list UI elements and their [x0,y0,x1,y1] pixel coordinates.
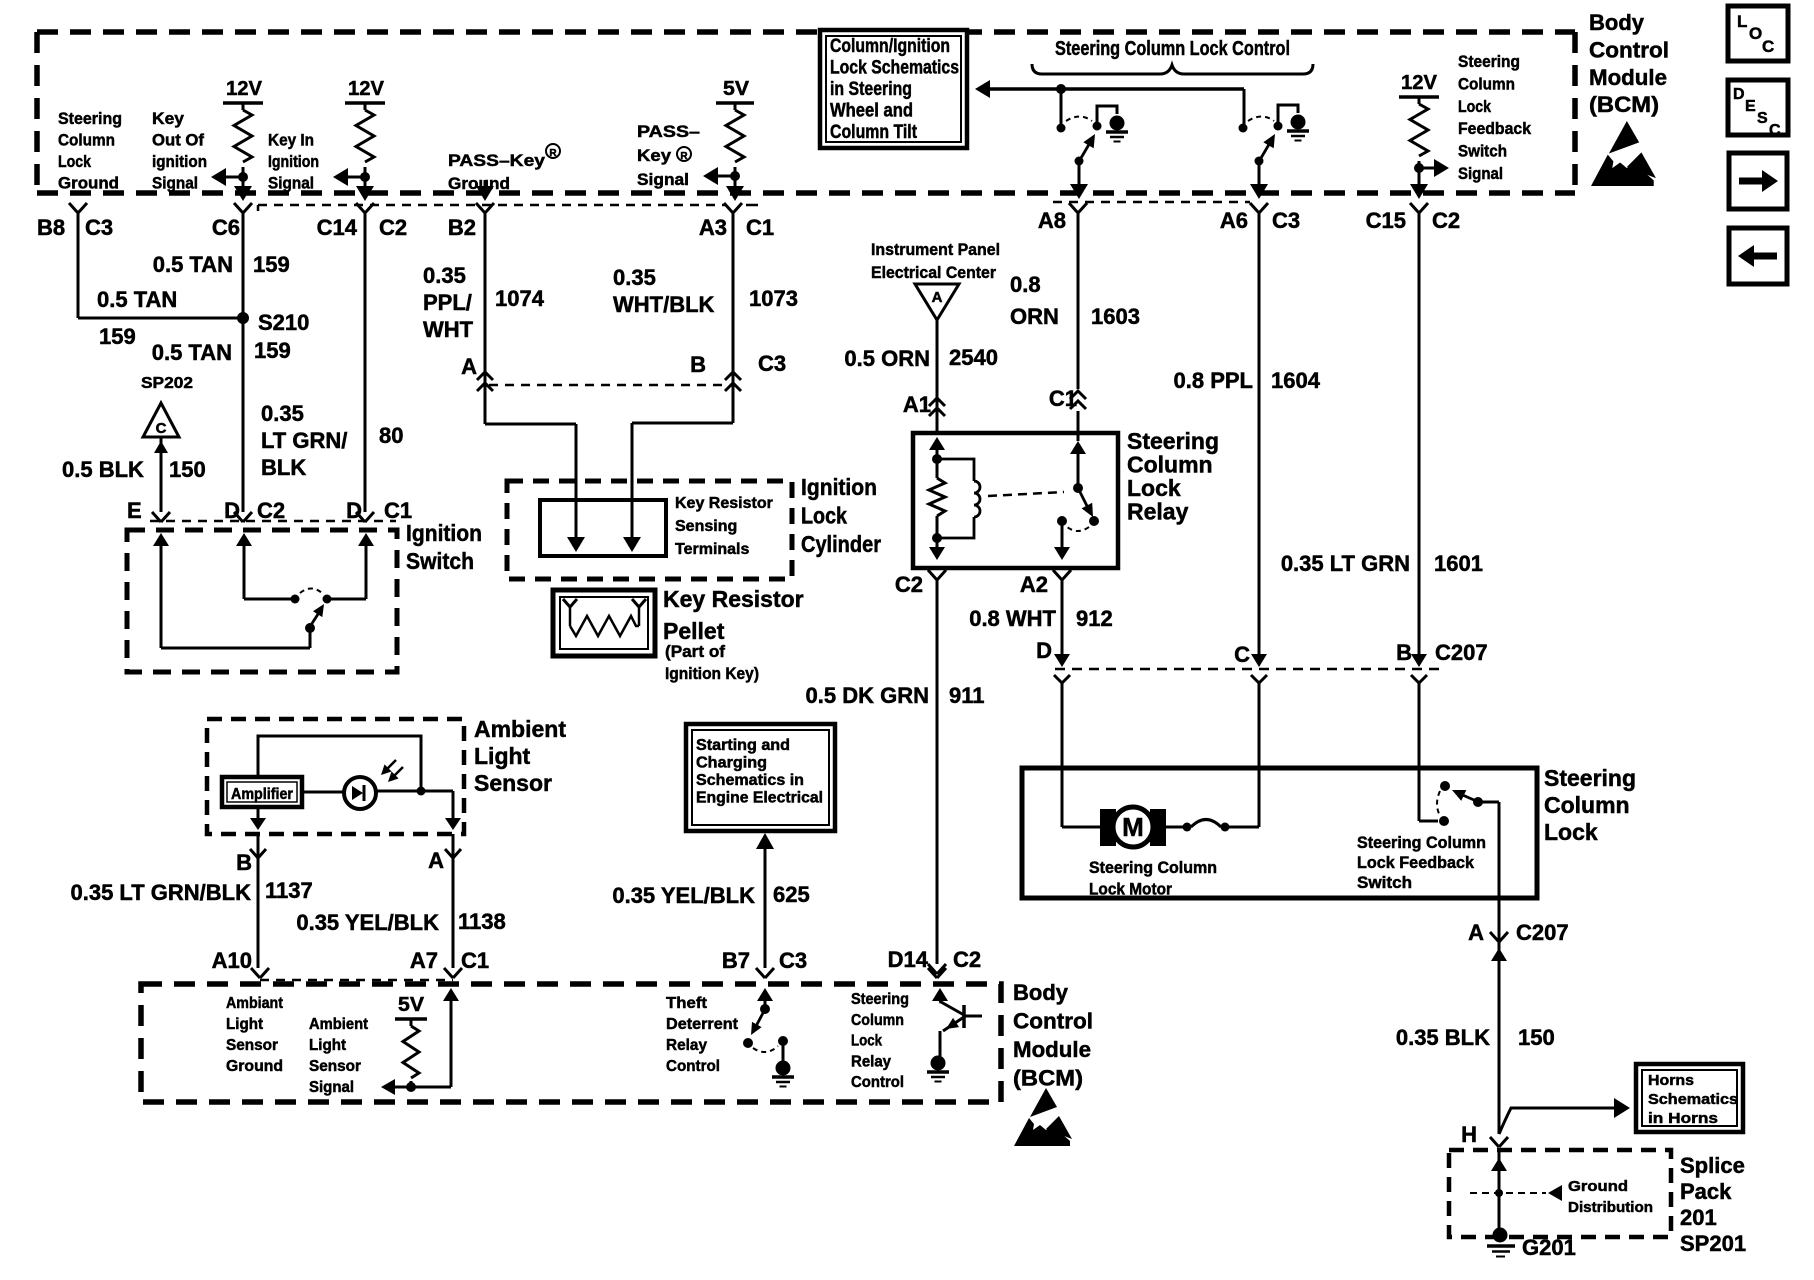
svg-text:E: E [1745,98,1756,115]
svg-text:159: 159 [253,252,290,277]
svg-text:A2: A2 [1020,572,1048,597]
svg-text:D: D [1733,86,1745,103]
svg-text:D: D [224,498,240,523]
svg-text:(BCM): (BCM) [1589,92,1659,117]
svg-text:Body: Body [1013,980,1069,1005]
svg-text:C: C [1769,122,1781,139]
svg-text:Steering: Steering [58,109,122,128]
svg-text:Ground: Ground [1568,1178,1628,1195]
svg-text:Lock Feedback: Lock Feedback [1357,854,1475,872]
svg-text:PASS–Key: PASS–Key [448,151,546,170]
svg-text:0.5 ORN: 0.5 ORN [844,346,930,371]
svg-text:Steering Column: Steering Column [1089,859,1217,877]
svg-text:Light: Light [474,743,531,769]
svg-text:Ambient: Ambient [474,716,566,742]
svg-text:0.5 TAN: 0.5 TAN [153,252,233,277]
svg-text:A8: A8 [1038,208,1066,233]
svg-text:LT GRN/: LT GRN/ [261,428,347,453]
svg-text:Column: Column [1127,452,1213,478]
svg-text:Theft: Theft [666,995,708,1012]
svg-text:B8: B8 [37,215,65,240]
svg-text:Steering Column: Steering Column [1357,834,1486,852]
svg-text:150: 150 [1518,1025,1555,1050]
svg-text:Instrument Panel: Instrument Panel [871,240,1000,259]
svg-text:C2: C2 [1432,208,1460,233]
svg-text:Steering: Steering [851,991,909,1008]
svg-text:0.35 LT GRN: 0.35 LT GRN [1281,551,1410,576]
svg-text:A6: A6 [1220,208,1248,233]
svg-text:Ignition: Ignition [268,152,319,171]
svg-text:Schematics in: Schematics in [696,772,804,789]
svg-text:2540: 2540 [949,345,998,370]
svg-text:Sensor: Sensor [226,1037,278,1054]
svg-text:1073: 1073 [749,286,798,311]
svg-text:WHT: WHT [423,317,474,342]
svg-text:1138: 1138 [458,909,506,934]
svg-text:80: 80 [379,423,403,448]
svg-text:Pack: Pack [1680,1179,1732,1204]
svg-text:Ignition: Ignition [406,520,482,546]
svg-text:Horns: Horns [1648,1072,1694,1089]
svg-text:0.35 LT GRN/BLK: 0.35 LT GRN/BLK [70,880,251,905]
svg-text:Lock: Lock [851,1033,882,1050]
svg-text:Lock Schematics: Lock Schematics [830,58,959,79]
svg-text:C15: C15 [1366,208,1406,233]
svg-text:0.35 BLK: 0.35 BLK [1396,1025,1490,1050]
svg-text:Steering: Steering [1544,765,1636,791]
svg-text:Key Resistor: Key Resistor [675,495,773,512]
svg-text:Terminals: Terminals [675,541,750,558]
svg-text:Ignition Key): Ignition Key) [665,664,759,683]
svg-text:911: 911 [949,683,985,708]
svg-text:0.35 YEL/BLK: 0.35 YEL/BLK [612,883,755,908]
svg-text:SP201: SP201 [1680,1231,1746,1256]
svg-text:C3: C3 [758,351,786,376]
svg-text:C207: C207 [1435,640,1488,665]
svg-text:0.5 TAN: 0.5 TAN [97,287,177,312]
svg-text:Column Tilt: Column Tilt [830,122,918,143]
svg-text:in Horns: in Horns [1648,1110,1718,1127]
svg-text:Lock: Lock [1458,97,1491,116]
svg-text:1137: 1137 [265,878,313,903]
svg-text:B2: B2 [448,215,476,240]
svg-text:D: D [1036,638,1052,663]
svg-text:1603: 1603 [1091,304,1140,329]
svg-text:C3: C3 [85,215,113,240]
svg-text:A7: A7 [410,948,438,973]
svg-text:C: C [156,420,167,437]
svg-text:A3: A3 [699,215,727,240]
svg-text:0.8 PPL: 0.8 PPL [1174,368,1253,393]
svg-text:C2: C2 [379,215,407,240]
svg-text:Control: Control [1589,37,1669,62]
svg-text:0.5 DK GRN: 0.5 DK GRN [806,683,929,708]
svg-text:Signal: Signal [152,174,198,193]
svg-text:BLK: BLK [261,455,306,480]
svg-text:1604: 1604 [1271,368,1321,393]
svg-text:Control: Control [851,1074,904,1091]
svg-text:Column/Ignition: Column/Ignition [830,36,950,57]
svg-text:ignition: ignition [152,152,207,171]
svg-text:C1: C1 [746,215,774,240]
svg-text:Key: Key [152,109,185,128]
svg-text:in Steering: in Steering [830,79,912,100]
svg-text:Cylinder: Cylinder [801,531,881,557]
svg-text:Column: Column [58,131,115,150]
svg-text:Relay: Relay [851,1053,891,1070]
svg-text:0.5 TAN: 0.5 TAN [152,340,232,365]
svg-text:H: H [1461,1122,1477,1147]
svg-text:B: B [690,352,706,377]
svg-text:Charging: Charging [696,755,767,772]
svg-text:B: B [1396,640,1412,665]
svg-text:C2: C2 [895,572,923,597]
svg-text:L: L [1737,12,1747,31]
svg-text:C14: C14 [317,215,358,240]
svg-text:Sensing: Sensing [675,518,737,535]
svg-text:Engine Electrical: Engine Electrical [696,790,823,807]
svg-text:Wheel and: Wheel and [830,101,913,122]
svg-text:Signal: Signal [1458,164,1503,183]
svg-text:Switch: Switch [1357,874,1412,892]
svg-text:Switch: Switch [406,548,474,574]
svg-text:WHT/BLK: WHT/BLK [613,292,715,317]
svg-text:0.5 BLK: 0.5 BLK [62,457,144,482]
svg-text:Relay: Relay [1127,499,1189,525]
svg-text:Pellet: Pellet [663,618,725,644]
svg-text:Distribution: Distribution [1568,1199,1653,1216]
svg-text:Electrical Center: Electrical Center [871,263,996,282]
svg-text:Switch: Switch [1458,142,1507,161]
svg-text:D: D [346,498,362,523]
svg-text:0.35: 0.35 [613,265,656,290]
svg-text:C1: C1 [1049,386,1077,411]
svg-text:Light: Light [309,1037,347,1054]
svg-text:C3: C3 [779,948,807,973]
svg-text:B7: B7 [722,948,750,973]
svg-text:C6: C6 [212,215,240,240]
svg-text:12V: 12V [1401,72,1438,94]
svg-text:D14: D14 [888,947,929,972]
svg-text:E: E [127,498,142,523]
svg-text:A: A [932,289,943,306]
svg-text:Module: Module [1013,1037,1091,1062]
svg-text:SP202: SP202 [141,375,193,392]
svg-text:12V: 12V [226,78,263,100]
svg-text:Splice: Splice [1680,1153,1745,1178]
svg-text:Key Resistor: Key Resistor [663,586,804,612]
svg-text:A: A [1468,920,1484,945]
svg-text:C1: C1 [461,948,489,973]
svg-text:0.35 YEL/BLK: 0.35 YEL/BLK [296,910,439,935]
svg-text:Sensor: Sensor [474,770,552,796]
svg-text:Ground: Ground [58,174,119,193]
svg-text:Ignition: Ignition [801,474,877,500]
svg-text:Deterrent: Deterrent [666,1016,739,1033]
svg-text:0.8: 0.8 [1010,272,1041,297]
svg-text:Ground: Ground [448,174,510,193]
svg-text:(Part of: (Part of [665,642,725,661]
svg-text:Amplifier: Amplifier [231,786,293,803]
svg-text:Column: Column [1544,792,1630,818]
svg-text:Control: Control [666,1058,720,1075]
svg-text:Lock Motor: Lock Motor [1089,881,1173,899]
svg-text:Control: Control [1013,1009,1093,1034]
svg-text:Out Of: Out Of [152,131,204,150]
svg-text:Ground: Ground [226,1058,283,1075]
svg-text:1601: 1601 [1434,551,1483,576]
svg-text:A: A [428,848,444,873]
svg-text:R: R [680,151,688,162]
svg-text:A10: A10 [212,948,252,973]
svg-text:S: S [1757,110,1768,127]
svg-text:A: A [461,354,477,379]
svg-text:C2: C2 [953,947,981,972]
svg-text:C2: C2 [257,498,285,523]
svg-text:ORN: ORN [1010,304,1059,329]
svg-text:159: 159 [99,324,136,349]
svg-text:Feedback: Feedback [1458,119,1531,138]
svg-text:A1: A1 [903,392,931,417]
svg-text:Lock: Lock [1544,819,1598,845]
svg-text:0.35: 0.35 [261,401,304,426]
svg-text:Column: Column [851,1012,904,1029]
svg-text:Relay: Relay [666,1037,707,1054]
svg-text:Sensor: Sensor [309,1058,361,1075]
svg-text:(BCM): (BCM) [1013,1066,1083,1091]
svg-text:0.8 WHT: 0.8 WHT [969,606,1056,631]
svg-text:201: 201 [1680,1205,1717,1230]
svg-text:Starting and: Starting and [696,737,790,754]
svg-text:Module: Module [1589,65,1667,90]
svg-text:1074: 1074 [495,286,545,311]
svg-text:Signal: Signal [637,170,689,189]
svg-text:Lock: Lock [801,503,847,529]
svg-text:C: C [1234,642,1250,667]
svg-text:Ambient: Ambient [309,1016,369,1033]
svg-text:Signal: Signal [268,174,314,193]
svg-text:Steering: Steering [1127,428,1219,454]
svg-text:C: C [1762,37,1774,56]
svg-text:PASS–: PASS– [637,122,700,141]
svg-text:Lock: Lock [58,152,91,171]
svg-text:Body: Body [1589,10,1645,35]
svg-text:C3: C3 [1272,208,1300,233]
svg-text:Steering Column Lock Control: Steering Column Lock Control [1055,38,1290,60]
svg-text:912: 912 [1076,606,1113,631]
svg-text:Schematics: Schematics [1648,1091,1738,1108]
svg-text:O: O [1749,24,1762,43]
svg-text:159: 159 [254,338,291,363]
svg-text:B: B [236,850,252,875]
svg-text:M: M [1122,812,1144,842]
svg-text:Steering: Steering [1458,52,1520,71]
svg-text:PPL/: PPL/ [423,290,472,315]
svg-text:5V: 5V [398,994,425,1016]
svg-text:0.35: 0.35 [423,263,466,288]
svg-text:Ambiant: Ambiant [226,995,284,1012]
svg-text:5V: 5V [723,78,750,100]
svg-text:Key: Key [637,146,672,165]
svg-text:R: R [549,148,557,159]
svg-text:625: 625 [773,882,810,907]
svg-text:12V: 12V [348,78,385,100]
svg-text:150: 150 [169,457,206,482]
svg-text:Light: Light [226,1016,264,1033]
svg-text:G201: G201 [1522,1235,1576,1260]
svg-text:Column: Column [1458,74,1515,93]
svg-text:Signal: Signal [309,1079,354,1096]
svg-text:C207: C207 [1516,920,1569,945]
svg-text:Key In: Key In [268,131,314,150]
svg-text:S210: S210 [258,310,309,335]
svg-text:Lock: Lock [1127,475,1181,501]
